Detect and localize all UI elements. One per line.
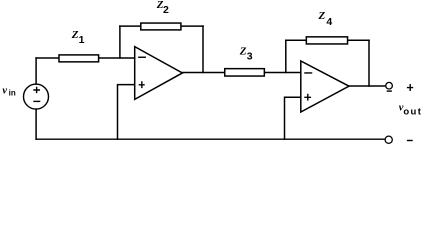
svg-text:Z: Z bbox=[239, 45, 247, 57]
svg-text:Z: Z bbox=[71, 29, 79, 41]
voltage source Vin bbox=[24, 84, 49, 109]
svg-text:1: 1 bbox=[79, 34, 85, 46]
wire: op-amp U1 non-inverting input to ground rail bbox=[118, 85, 135, 140]
svg-text:2: 2 bbox=[163, 4, 169, 16]
svg-text:in: in bbox=[9, 89, 16, 98]
op-amp U2 plus sign bbox=[305, 94, 310, 100]
op-amp U1 bbox=[135, 47, 183, 100]
wire: Z2 feedback left leg bbox=[119, 26, 121, 58]
op-amp U1 plus sign bbox=[139, 82, 144, 88]
resistor Z3 bbox=[225, 69, 265, 76]
op-amp U2 bbox=[301, 61, 349, 112]
svg-text:Z: Z bbox=[318, 10, 326, 22]
wire: op-amp U2 output to terminal bbox=[349, 85, 386, 87]
wire: op-amp U1 output row bbox=[182, 72, 300, 74]
svg-text:out: out bbox=[403, 106, 422, 117]
terminal + (open circle) bbox=[386, 82, 393, 89]
wire: op-amp U2 non-inverting input to ground rail bbox=[285, 97, 301, 139]
svg-text:v: v bbox=[2, 85, 7, 96]
wire: Z2 feedback top bbox=[120, 25, 203, 27]
label Z4 bbox=[318, 10, 333, 28]
label vin bbox=[2, 85, 15, 97]
wire: Z4 feedback top bbox=[286, 39, 369, 41]
label vout bbox=[399, 102, 422, 117]
wire: Z4 feedback right leg bbox=[368, 40, 370, 86]
svg-text:3: 3 bbox=[247, 50, 253, 62]
resistor Z2 bbox=[141, 23, 181, 30]
resistor Z1 bbox=[59, 55, 99, 62]
wire: source bottom vertical bbox=[35, 109, 37, 139]
resistor Z4 bbox=[306, 37, 347, 44]
minus sign at output bbox=[408, 140, 412, 142]
wire: bottom ground rail bbox=[36, 138, 385, 140]
op-amp U2 minus sign bbox=[305, 72, 312, 74]
plus sign at output bbox=[408, 85, 413, 91]
op-amp U1 minus sign bbox=[139, 56, 145, 58]
wire: source top vertical bbox=[35, 58, 37, 84]
terminal + underline mark bbox=[387, 90, 391, 92]
label Z3 bbox=[239, 45, 253, 62]
wire: Z4 feedback left leg bbox=[285, 40, 287, 72]
wire: input row to op-amp 1 inverting input bbox=[36, 57, 135, 59]
svg-text:4: 4 bbox=[326, 16, 332, 28]
wire: Z2 feedback right leg bbox=[202, 26, 204, 72]
label Z2 bbox=[156, 0, 169, 16]
terminal - (open circle) bbox=[385, 136, 392, 143]
label Z1 bbox=[71, 29, 85, 46]
